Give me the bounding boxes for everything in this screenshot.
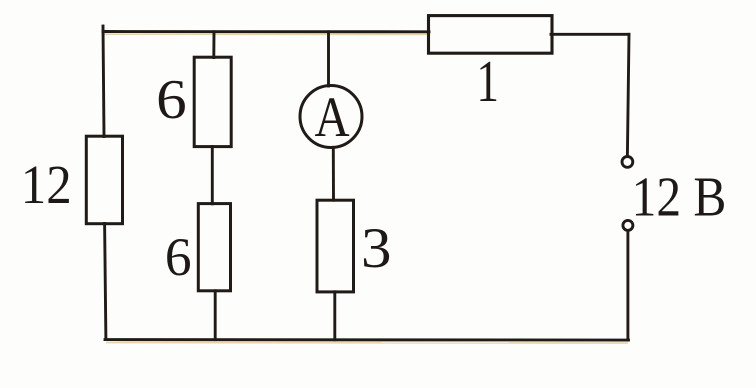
scan fringe under top wire — [103, 33, 429, 35]
svg-text:12 В: 12 В — [632, 167, 727, 229]
resistor 12 (left branch) — [86, 136, 122, 224]
svg-text:1: 1 — [476, 49, 499, 114]
resistor 6 upper (middle branch) — [194, 57, 231, 146]
svg-text:3: 3 — [361, 217, 392, 280]
svg-text:A: A — [315, 86, 350, 149]
wire ammeter to 3-ohm resistor — [332, 147, 335, 200]
wire 3-branch to bottom rail — [333, 292, 336, 340]
wire ammeter branch drop from top rail — [327, 32, 330, 86]
resistor 6 lower (middle branch) — [198, 204, 230, 291]
wire 6-branch drop from top rail — [212, 32, 215, 58]
wire right rail upper to terminal — [627, 34, 629, 154]
wire right rail lower from terminal to bottom — [626, 232, 629, 340]
wire 6-branch to bottom rail — [214, 291, 217, 340]
wire left rail lower — [105, 224, 106, 340]
ammeter A (circle) — [300, 86, 362, 148]
wire top-left horizontal (node top) — [103, 30, 429, 33]
wire between the two 6-ohm resistors — [211, 147, 214, 204]
svg-text:6: 6 — [156, 69, 187, 131]
wire left rail upper (with overshoot above corner) — [103, 26, 104, 137]
resistor 3 (ammeter branch) — [317, 200, 354, 292]
resistor 1 (top branch) — [429, 16, 553, 54]
scan fringe under bottom wire — [106, 342, 628, 345]
wire bottom rail — [105, 338, 629, 341]
svg-text:12: 12 — [21, 154, 72, 215]
terminal upper (source) — [622, 157, 633, 168]
svg-text:6: 6 — [165, 227, 192, 287]
terminal lower (source) — [623, 220, 633, 230]
wire top-right segment to right rail — [551, 33, 629, 36]
